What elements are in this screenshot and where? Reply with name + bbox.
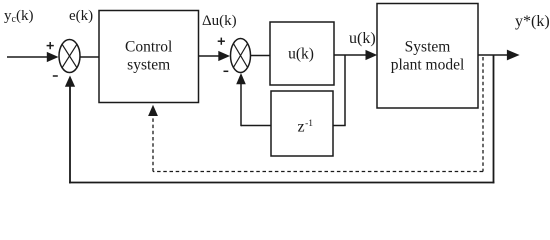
- svg-text:plant model: plant model: [391, 57, 465, 74]
- wire dashed feedback from output line down right side: [482, 57, 484, 172]
- minus sign at S1: [53, 75, 58, 77]
- wire S1 to Control system block: [80, 56, 99, 58]
- wire dashed feedback up to Control system block: [148, 105, 158, 172]
- summing junction S1: [59, 40, 80, 73]
- wire solid feedback up left side to S1 minus input: [65, 76, 75, 184]
- wire System plant model to y*(k) output: [478, 50, 520, 61]
- wire tap from u(k) line down to z-1 block input: [333, 55, 346, 126]
- svg-text:e(k): e(k): [69, 8, 93, 24]
- wire u(k) block to System plant model: [334, 50, 377, 60]
- plus sign at S2: [218, 38, 225, 45]
- block z-1: [271, 91, 333, 156]
- plus sign at S1: [47, 42, 54, 49]
- wire S2 to u(k) block: [251, 55, 271, 57]
- svg-text:yc(k): yc(k): [4, 8, 33, 25]
- svg-text:u(k): u(k): [349, 30, 376, 47]
- block Control system: [99, 11, 199, 103]
- svg-text:System: System: [405, 39, 451, 56]
- summing junction S2: [231, 39, 251, 73]
- wire dashed feedback bottom run: [153, 171, 483, 173]
- svg-text:system: system: [127, 57, 170, 74]
- wire solid feedback bottom run: [69, 182, 494, 184]
- minus sign at S2: [224, 70, 229, 72]
- svg-text:y*(k): y*(k): [515, 13, 550, 30]
- wire input yc(k) to summing junction S1: [7, 52, 59, 62]
- block u(k): [270, 22, 334, 85]
- block System plant model: [377, 4, 478, 109]
- svg-text:Control: Control: [125, 39, 172, 56]
- svg-text:Δu(k): Δu(k): [202, 13, 237, 29]
- wire Control system to summing junction S2: [199, 51, 231, 61]
- wire z-1 output to S2 minus input: [236, 73, 271, 126]
- wire solid feedback from output down right side: [493, 55, 495, 183]
- svg-text:u(k): u(k): [288, 46, 314, 63]
